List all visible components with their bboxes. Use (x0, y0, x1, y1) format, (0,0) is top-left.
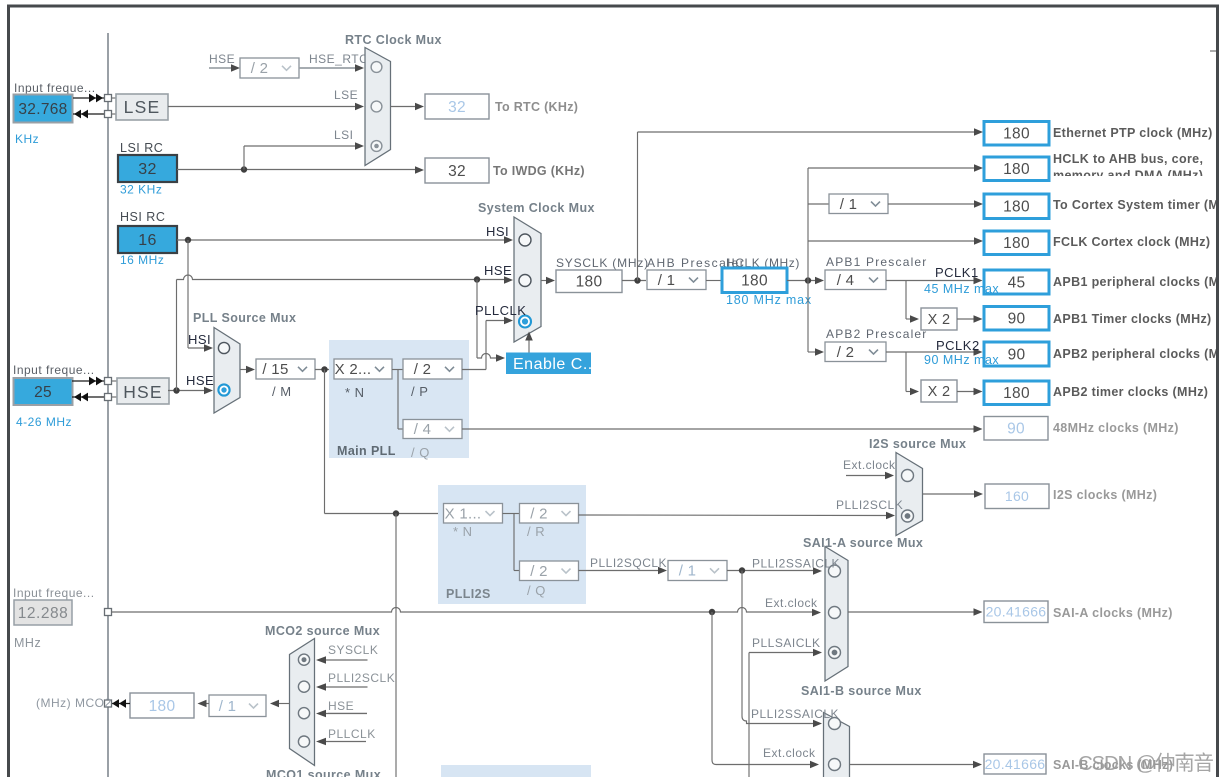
node HSE at MCO2 (328, 699, 367, 713)
wire MCO2 prescaler to out (198, 700, 210, 708)
title MCO2 source Mux (265, 624, 380, 638)
svg-text:MCO2 source Mux: MCO2 source Mux (265, 624, 380, 638)
wire LSI to IWDG (177, 166, 424, 174)
node Ext.clock at SAI-A (765, 596, 818, 610)
prescaler AHB /1 (647, 270, 706, 290)
divider PLLI2S /R /2 (520, 504, 579, 540)
svg-text:Ext.clock: Ext.clock (763, 746, 816, 760)
output HCLK AHB 180 (984, 157, 1049, 181)
label APB2 peripheral clocks (MHz) (1053, 347, 1219, 361)
svg-text:HSE: HSE (328, 699, 354, 713)
multiplier *N X2 (334, 359, 392, 400)
output MCO2 180 (130, 693, 194, 718)
label HCLK (MHz) (726, 256, 800, 270)
svg-text:HSE: HSE (209, 52, 235, 66)
label 45 MHz max (924, 282, 999, 296)
junction PLLI2S feed (393, 510, 399, 516)
wire HCLK to APB1 (787, 277, 824, 285)
label MHz (14, 636, 41, 650)
wire SAI-A out (848, 608, 983, 616)
wire *N to /P /Q (392, 370, 403, 430)
wire HSE up to system mux (177, 275, 514, 391)
wire HSE to PLL mux (168, 387, 213, 395)
stub HSE MCO2 (316, 710, 367, 718)
svg-text:/ 1: / 1 (840, 196, 858, 213)
svg-text:48MHz clocks (MHz): 48MHz clocks (MHz) (1053, 421, 1179, 435)
wire APB2 to X2 (906, 352, 919, 395)
mux RTC Clock Mux (365, 48, 391, 166)
svg-text:PCLK1: PCLK1 (935, 265, 979, 280)
pin square LSE in (105, 95, 112, 102)
label AHB Prescaler (647, 256, 745, 270)
svg-text:* N: * N (453, 524, 473, 539)
svg-text:PLLI2SQCLK: PLLI2SQCLK (590, 556, 667, 570)
svg-text:Enable C...: Enable C... (513, 356, 598, 373)
label I2S clocks (MHz) (1053, 488, 1157, 502)
label Ethernet PTP clock (MHz) (1053, 126, 1213, 140)
output APB2 peripheral 90 (984, 342, 1049, 366)
divider /P /2 (403, 359, 462, 399)
svg-text:PLLI2SSAICLK: PLLI2SSAICLK (751, 707, 839, 721)
label APB2 Prescaler (826, 327, 928, 341)
svg-text:PLLI2SCLK: PLLI2SCLK (328, 671, 395, 685)
svg-text:/ P: / P (411, 384, 428, 399)
prescaler MCO2 /1 (209, 695, 266, 717)
output APB2 timer 180 (984, 381, 1049, 405)
svg-text:HSE: HSE (186, 373, 214, 388)
wire AHB to HCLK (706, 280, 722, 282)
label HCLK to AHB bus core memory and DMA (MHz) (1053, 152, 1203, 183)
svg-text:PLLI2SSAICLK: PLLI2SSAICLK (752, 557, 840, 571)
prescaler Cortex /1 (829, 194, 888, 214)
junction HCLK branch (805, 277, 811, 283)
label PLLI2S (446, 587, 491, 601)
svg-text:* N: * N (345, 385, 365, 400)
block PLLSAI (441, 765, 591, 777)
wire APB1 to X2 (906, 281, 919, 323)
wire system mux out (541, 277, 555, 285)
pin square HSE out (105, 394, 112, 401)
svg-text:/ 2: / 2 (414, 361, 432, 378)
label Input frequency (CKIN) (13, 586, 95, 600)
svg-text:20.41666: 20.41666 (985, 756, 1046, 772)
node PLLCLK at MCO2 (328, 727, 376, 741)
junction LSI branch (241, 166, 247, 172)
node PLLI2SCLK at MCO2 (328, 671, 395, 685)
svg-text:45: 45 (1008, 274, 1026, 291)
stub PLLI2SCLK MCO2 (316, 683, 368, 691)
wire PLLI2S R out (579, 512, 896, 520)
svg-text:FCLK Cortex clock (MHz): FCLK Cortex clock (MHz) (1053, 235, 1210, 249)
title I2S source Mux (869, 437, 966, 451)
svg-text:12.288: 12.288 (18, 605, 68, 622)
svg-text:X 2: X 2 (928, 312, 951, 328)
svg-text:HSE: HSE (484, 263, 512, 278)
prescaler APB2 /2 (825, 342, 886, 362)
node HSI at system mux (486, 224, 509, 239)
wire PLLI2S vertical net (395, 514, 397, 777)
svg-text:SAI-A clocks (MHz): SAI-A clocks (MHz) (1053, 606, 1173, 620)
block Main PLL (329, 340, 469, 458)
wire PLL feed to PLLI2S (325, 370, 444, 514)
svg-text:SYSCLK (MHz): SYSCLK (MHz) (556, 256, 649, 270)
mux PLL Source Mux (214, 328, 240, 414)
wire HSI to system mux (177, 236, 513, 244)
node PLLI2SSAICLK at SAI-B2 (751, 707, 839, 721)
svg-text:180: 180 (576, 274, 603, 291)
mux System Clock Mux (514, 217, 541, 342)
wire LSE osc-out (73, 110, 116, 119)
svg-text:Ext.clock: Ext.clock (843, 458, 896, 472)
node Ext.clock at I2S mux (843, 458, 896, 472)
svg-text:PLLCLK: PLLCLK (475, 303, 526, 318)
label APB1 peripheral clocks (MHz) (1053, 275, 1219, 289)
output To IWDG 32 (425, 158, 489, 183)
svg-text:APB1 Prescaler: APB1 Prescaler (826, 255, 928, 269)
wire CKIN down to SAI-B (712, 612, 819, 768)
svg-text:/ Q: / Q (527, 583, 546, 598)
wire SAI-B out (850, 761, 983, 769)
node PLLI2SQCLK (590, 556, 667, 570)
label HSI RC (120, 210, 165, 224)
svg-text:HSE: HSE (123, 382, 163, 402)
wire PLL mux out (240, 366, 255, 374)
svg-text:180: 180 (149, 698, 176, 715)
stub PLLCLK MCO2 (316, 738, 366, 746)
divider PLLI2S R /1 (668, 561, 727, 581)
svg-text:90: 90 (1007, 421, 1025, 438)
svg-text:180: 180 (1003, 235, 1030, 252)
label KHz (15, 132, 39, 146)
label (MHz) MCO2 (36, 696, 112, 710)
svg-text:X 2...: X 2... (335, 361, 372, 378)
output APB1 timer 90 (984, 307, 1049, 331)
svg-text:20.41666: 20.41666 (986, 604, 1047, 620)
output SYSCLK 180 (556, 270, 622, 293)
wire PLLCLK to system mux (462, 317, 513, 370)
svg-text:32: 32 (138, 161, 156, 178)
label 180 MHz max (726, 293, 812, 307)
svg-text:I2S clocks (MHz): I2S clocks (MHz) (1053, 488, 1157, 502)
output HCLK 180 (722, 268, 787, 293)
label APB1 Prescaler (826, 255, 928, 269)
svg-text:16 MHz: 16 MHz (120, 253, 164, 267)
wire /M to *N (315, 369, 334, 371)
pin square CKIN (105, 609, 112, 616)
output 48MHz 90 (984, 417, 1048, 441)
svg-text:HSI: HSI (486, 224, 509, 239)
wire LSE osc-in (73, 94, 116, 103)
svg-text:HSI RC: HSI RC (120, 210, 165, 224)
svg-text:APB1 peripheral clocks (M: APB1 peripheral clocks (M (1053, 275, 1219, 289)
svg-text:/ 15: / 15 (262, 361, 288, 378)
input box 12.288 (14, 600, 72, 625)
stub right border tick (1210, 50, 1217, 52)
oscillator LSE (116, 94, 168, 120)
node HSE at PLL mux (186, 373, 214, 388)
label To RTC (KHz) (495, 100, 578, 114)
label APB2 timer clocks (MHz) (1053, 385, 1208, 399)
svg-text:180: 180 (1003, 126, 1030, 143)
svg-text:LSI RC: LSI RC (120, 141, 163, 155)
svg-text:32: 32 (448, 163, 466, 180)
stub Ext.clock I2S (846, 472, 894, 480)
wire APB1 X2 out (957, 315, 983, 323)
svg-text:Main PLL: Main PLL (337, 444, 396, 458)
node PLLCLK at system mux (475, 303, 526, 318)
node SYSCLK at MCO2 (328, 643, 378, 657)
pin bus line (107, 33, 109, 777)
node HSE stub (209, 52, 240, 72)
wire SYSCLK to ethernet (638, 128, 984, 280)
wire HCLK to APB2 (808, 348, 824, 356)
svg-text:90 MHz max: 90 MHz max (924, 353, 999, 367)
svg-text:LSE: LSE (334, 88, 358, 102)
wire PLLI2SSAICLK down to SAI-B (742, 571, 822, 728)
svg-text:PLLSAICLK: PLLSAICLK (752, 636, 821, 650)
output To RTC 32 (425, 94, 489, 119)
svg-text:/ M: / M (272, 384, 292, 399)
mux SAI1-A source Mux (825, 547, 848, 682)
svg-text:180: 180 (1003, 161, 1030, 178)
junction HSE css branch (474, 276, 480, 282)
svg-text:LSE: LSE (124, 97, 161, 117)
stub SYSCLK MCO2 (316, 656, 368, 664)
label Input frequency (LSE) (14, 81, 96, 95)
svg-text:/ 1: / 1 (658, 272, 676, 289)
label 32 KHz (120, 183, 162, 197)
label 4-26 MHz (16, 415, 72, 429)
wire APB2 out (886, 348, 983, 356)
output APB1 peripheral 45 (984, 270, 1049, 294)
title SAI1-A source Mux (803, 536, 923, 550)
button Enable CSS (506, 353, 598, 375)
svg-text:X 2: X 2 (928, 384, 951, 400)
wire HSE_RTC to mux (299, 64, 364, 72)
title System Clock Mux (478, 201, 595, 215)
oscillator HSE (117, 378, 169, 404)
mux MCO2 source Mux (290, 639, 315, 766)
svg-text:180: 180 (741, 273, 768, 290)
svg-text:Input freque...: Input freque... (14, 81, 96, 95)
wire RTC mux out (391, 103, 425, 111)
svg-text:SYSCLK: SYSCLK (328, 643, 378, 657)
svg-text:SAI1-A source Mux: SAI1-A source Mux (803, 536, 923, 550)
output Ethernet PTP 180 (984, 122, 1049, 146)
node PLLSAICLK at SAI-A (752, 636, 821, 650)
svg-text:PCLK2: PCLK2 (936, 338, 980, 353)
watermark CSDN (1078, 752, 1214, 775)
svg-text:32 KHz: 32 KHz (120, 183, 162, 197)
svg-text:Ethernet PTP clock (MHz): Ethernet PTP clock (MHz) (1053, 126, 1213, 140)
node LSI label (334, 128, 354, 142)
wire I2S out (923, 490, 984, 498)
wire HSI down to PLL mux (188, 240, 213, 352)
svg-text:APB2 timer clocks (MHz): APB2 timer clocks (MHz) (1053, 385, 1208, 399)
svg-text:HSE_RTC: HSE_RTC (309, 52, 368, 66)
title MCO1 source Mux (266, 768, 381, 777)
svg-text:To IWDG (KHz): To IWDG (KHz) (493, 164, 585, 178)
prescaler /M /15 (256, 359, 315, 399)
wire MCO2 mux to prescaler (270, 700, 290, 708)
junction HSE branch (173, 387, 179, 393)
junction SYSCLK branch (634, 277, 640, 283)
node PCLK2 (936, 338, 980, 353)
wire MCO2 to pin (111, 699, 130, 708)
input box 25 MHz (14, 378, 73, 405)
wire PLLI2SSAICLK to SAI-A (727, 567, 822, 575)
label Input frequency (HSE) (13, 363, 95, 377)
oscillator LSI RC 32 (118, 155, 177, 182)
svg-text:To RTC (KHz): To RTC (KHz) (495, 100, 578, 114)
svg-text:To Cortex System timer (MH: To Cortex System timer (MH (1053, 198, 1225, 212)
svg-text:Input freque...: Input freque... (13, 586, 95, 600)
svg-text:HCLK to AHB bus, core,: HCLK to AHB bus, core, (1053, 152, 1203, 166)
mux SAI1-B source Mux (824, 713, 850, 777)
svg-text:/ R: / R (527, 524, 545, 539)
divider /Q /4 (403, 420, 462, 461)
svg-text:/ 2: / 2 (530, 563, 548, 580)
svg-text:MHz: MHz (14, 636, 41, 650)
wire PLLI2S N to R Q (503, 514, 520, 571)
wire PLLSAICLK riser (749, 649, 822, 777)
junction HSI branch (185, 237, 191, 243)
svg-text:APB1 Timer clocks (MHz): APB1 Timer clocks (MHz) (1053, 312, 1212, 326)
output I2S 160 (985, 484, 1049, 509)
label SAI-A clocks (MHz) (1053, 606, 1173, 620)
label FCLK Cortex clock (MHz) (1053, 235, 1210, 249)
wire LSE to mux (168, 103, 364, 111)
svg-text:SAI1-B source Mux: SAI1-B source Mux (801, 684, 922, 698)
svg-text:/ 1: / 1 (219, 698, 237, 715)
wire HCLK branch vertical (807, 168, 809, 352)
wire cortex to out (888, 200, 983, 208)
svg-text:X 1...: X 1... (445, 505, 482, 522)
node PCLK1 (935, 265, 979, 280)
wire APB1 out (886, 277, 983, 285)
wire HSE to CSS enable (477, 280, 505, 362)
title PLL Source Mux (193, 311, 296, 325)
label SAI-B clocks (MHz) (1053, 758, 1173, 772)
svg-text:/ 2: / 2 (530, 505, 548, 522)
junction CKIN branch (709, 609, 715, 615)
node HSE_RTC (309, 52, 368, 66)
svg-text:/ 2: / 2 (251, 60, 269, 77)
svg-text:16: 16 (138, 232, 156, 249)
svg-text:180: 180 (1003, 385, 1030, 402)
pin square MCO2 (105, 700, 112, 707)
multiplier PLLI2S *N X1 (444, 504, 503, 540)
label To Cortex System timer (MHz) (1053, 198, 1225, 212)
svg-text:I2S source Mux: I2S source Mux (869, 437, 966, 451)
wire SYSCLK to AHB (622, 280, 646, 282)
svg-text:PLLI2SCLK: PLLI2SCLK (836, 498, 903, 512)
node LSE label (334, 88, 358, 102)
svg-text:4-26 MHz: 4-26 MHz (16, 415, 72, 429)
svg-text:(MHz) MCO2: (MHz) MCO2 (36, 696, 112, 710)
svg-text:MCO1 source Mux: MCO1 source Mux (266, 768, 381, 777)
junction PLLI2SSAICLK (739, 567, 745, 573)
svg-text:/ 4: / 4 (414, 421, 432, 438)
border mask strip (1219, 0, 1225, 777)
block PLLI2S (438, 485, 586, 604)
wire HSE osc-out (72, 393, 117, 402)
wire LSI to RTC mux (244, 142, 364, 169)
mux I2S source Mux (896, 453, 923, 536)
svg-text:/ 2: / 2 (837, 344, 855, 361)
wire CSS to mux (525, 332, 533, 353)
node PLLI2SCLK at I2S mux (836, 498, 903, 512)
pin square HSE in (105, 378, 112, 385)
label LSI RC (120, 141, 163, 155)
svg-text:KHz: KHz (15, 132, 39, 146)
node HSI at PLL mux (188, 332, 211, 347)
svg-text:180 MHz max: 180 MHz max (726, 293, 812, 307)
prescaler APB1 /4 (825, 270, 886, 290)
title RTC Clock Mux (345, 33, 442, 47)
svg-text:System Clock Mux: System Clock Mux (478, 201, 595, 215)
svg-text:Ext.clock: Ext.clock (765, 596, 818, 610)
oscillator HSI RC 16 (118, 226, 177, 253)
svg-text:90: 90 (1008, 346, 1026, 363)
wire 48MHz clocks (462, 425, 983, 433)
wire HSE osc-in (72, 377, 117, 386)
svg-text:32.768: 32.768 (18, 101, 67, 118)
label To IWDG (KHz) (493, 164, 585, 178)
svg-text:90: 90 (1008, 311, 1026, 328)
pin square LSE out (105, 111, 112, 118)
wire APB2 X2 out (957, 388, 983, 396)
svg-text:45 MHz max: 45 MHz max (924, 282, 999, 296)
label APB1 Timer clocks (MHz) (1053, 312, 1212, 326)
label SYSCLK (MHz) (556, 256, 649, 270)
input box 32.768 KHz (14, 95, 73, 123)
svg-text:PLL Source Mux: PLL Source Mux (193, 311, 296, 325)
output SAI-A 20.41666 (984, 601, 1048, 623)
output SAI-B 20.41666 (984, 754, 1046, 774)
label 48MHz clocks (MHz) (1053, 421, 1179, 435)
wire I2S CKIN (111, 608, 821, 617)
junction PLL feed (321, 366, 327, 372)
svg-text:PLLI2S: PLLI2S (446, 587, 491, 601)
multiplier APB1 X2 (921, 308, 957, 330)
wire HCLK to AHB bus out (808, 164, 983, 172)
wire PLLI2S Q out (579, 567, 668, 575)
output Cortex timer 180 (984, 194, 1049, 219)
svg-text:/ 4: / 4 (837, 272, 855, 289)
svg-text:25: 25 (34, 384, 52, 401)
title SAI1-B source Mux (801, 684, 922, 698)
svg-text:160: 160 (1005, 488, 1029, 504)
svg-text:CSDN @仲南音: CSDN @仲南音 (1078, 752, 1214, 775)
wire HCLK to cortex prescaler (808, 203, 829, 205)
svg-text:/ 1: / 1 (679, 563, 697, 580)
svg-text:APB2 Prescaler: APB2 Prescaler (826, 327, 928, 341)
svg-text:32: 32 (448, 99, 466, 116)
svg-text:RTC Clock Mux: RTC Clock Mux (345, 33, 442, 47)
svg-text:180: 180 (1003, 199, 1030, 216)
node HSE at system mux (484, 263, 512, 278)
prescaler HSE_RTC /2 (240, 58, 299, 78)
output FCLK 180 (984, 231, 1049, 255)
svg-text:APB2 peripheral clocks (M: APB2 peripheral clocks (M (1053, 347, 1219, 361)
svg-text:Input freque...: Input freque... (13, 363, 95, 377)
divider PLLI2S /Q /2 (520, 561, 579, 598)
svg-text:HSI: HSI (188, 332, 211, 347)
node PLLI2SSAICLK label top (752, 557, 840, 571)
multiplier APB2 X2 (921, 380, 957, 402)
svg-text:/ Q: / Q (411, 445, 430, 460)
